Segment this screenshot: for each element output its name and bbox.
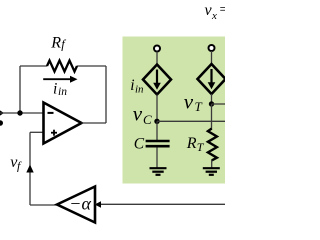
svg-text:C: C	[134, 136, 145, 153]
svg-text:v: v	[133, 101, 143, 125]
wire left vertical	[19, 66, 21, 113]
wire vT down to RT	[211, 104, 213, 129]
svg-text:R: R	[50, 34, 61, 51]
terminal circle column 1	[154, 46, 160, 52]
resistor RT	[208, 129, 217, 161]
svg-text:C: C	[143, 112, 152, 127]
current arrow i_in	[43, 76, 77, 83]
wire circle to source 1	[156, 52, 158, 66]
svg-text:x: x	[211, 10, 217, 22]
svg-text:v: v	[184, 89, 194, 113]
cut node dot fragment at left edge	[0, 120, 3, 126]
wire to inverting input	[0, 112, 44, 114]
wire right vertical	[105, 66, 107, 123]
wire vC down to capacitor	[156, 121, 158, 140]
svg-text:i: i	[130, 77, 134, 94]
node vT	[209, 101, 214, 106]
wire feedback vertical vf	[29, 132, 31, 205]
wire top feedback	[20, 65, 106, 67]
ground 1	[150, 168, 167, 175]
label vf	[10, 154, 22, 173]
svg-text:in: in	[58, 86, 67, 98]
capacitor C	[146, 141, 170, 146]
svg-text:T: T	[195, 99, 203, 114]
wire RT to ground	[211, 160, 213, 168]
label RT	[186, 135, 205, 154]
wire capacitor to ground	[156, 147, 158, 167]
current source i_in diamond	[143, 65, 171, 95]
svg-text:−α: −α	[69, 193, 91, 213]
wire vC to right edge	[157, 120, 225, 122]
terminal circle column 2	[209, 45, 215, 51]
controlled current source diamond	[198, 64, 226, 94]
label vx = (cropped equation)	[205, 2, 228, 22]
label Rf	[50, 34, 66, 51]
label vC	[133, 101, 152, 127]
wire bottom to amp output	[30, 204, 57, 206]
svg-text:R: R	[186, 135, 197, 152]
wire source2 to node vT	[211, 94, 213, 104]
svg-text:=: =	[220, 2, 226, 18]
wire vT to right edge	[212, 103, 226, 105]
label vT	[184, 89, 203, 114]
wire to non-inverting input	[30, 131, 44, 133]
amplifier -alpha	[57, 187, 95, 223]
arrow vf upward	[26, 165, 33, 173]
label i_in	[53, 81, 67, 98]
node junction	[17, 110, 22, 115]
green highlight box	[123, 37, 226, 184]
resistor Rf	[47, 61, 77, 72]
arrowhead into amp	[95, 201, 101, 207]
svg-text:in: in	[135, 83, 144, 95]
wire source1 to node vC	[156, 95, 158, 122]
wire circle to source 2	[211, 51, 213, 65]
wire from right into amp	[95, 203, 225, 205]
svg-text:i: i	[53, 81, 57, 98]
op-amp U1	[44, 103, 82, 144]
label C	[134, 136, 145, 153]
node vC	[154, 119, 159, 124]
wire op-amp output	[82, 122, 107, 124]
label i_in source	[130, 77, 144, 95]
ground 2	[203, 168, 220, 175]
cut arrowhead fragment at left edge	[0, 107, 4, 120]
